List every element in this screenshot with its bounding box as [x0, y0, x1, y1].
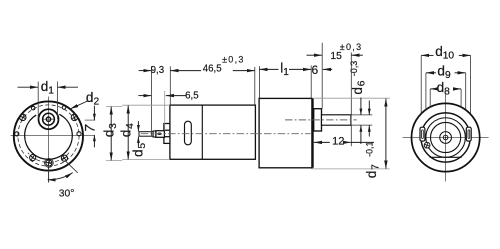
svg-text:-0,3: -0,3 — [349, 61, 359, 76]
svg-text:-0,1: -0,1 — [365, 142, 375, 157]
svg-text:d1: d1 — [41, 79, 55, 97]
svg-text:d10: d10 — [435, 44, 454, 62]
svg-text:±0,3: ±0,3 — [222, 54, 245, 64]
svg-text:d3: d3 — [101, 122, 119, 137]
svg-text:d7: d7 — [364, 163, 382, 178]
svg-text:6: 6 — [312, 63, 319, 77]
svg-text:d8: d8 — [437, 80, 451, 98]
svg-text:7: 7 — [83, 124, 98, 132]
svg-text:46,5: 46,5 — [203, 64, 222, 75]
svg-text:12: 12 — [332, 136, 344, 148]
svg-text:±0,3: ±0,3 — [340, 42, 363, 52]
svg-text:30°: 30° — [59, 188, 75, 199]
svg-text:9,3: 9,3 — [151, 65, 164, 76]
svg-text:d2: d2 — [86, 90, 100, 108]
svg-text:d6: d6 — [350, 80, 368, 95]
svg-text:d5: d5 — [130, 142, 148, 157]
svg-text:6,5: 6,5 — [185, 90, 198, 101]
svg-text:d9: d9 — [437, 64, 451, 82]
svg-text:d4: d4 — [119, 122, 137, 137]
svg-text:15: 15 — [330, 51, 342, 62]
svg-text:l1: l1 — [280, 60, 289, 78]
